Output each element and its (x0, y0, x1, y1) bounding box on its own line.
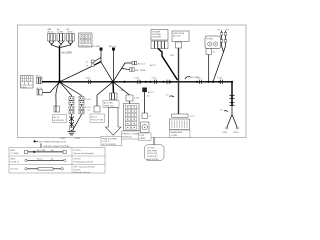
svg-text:FUSE DET: FUSE DET (147, 156, 158, 158)
svg-text:A2 14: A2 14 (148, 91, 154, 94)
svg-text:Z1 14: Z1 14 (85, 99, 91, 101)
svg-text:A0 12RD: A0 12RD (190, 76, 199, 79)
svg-text:Ground: Ground (11, 168, 19, 171)
svg-text:A1 14: A1 14 (54, 116, 60, 119)
svg-text:MR1: MR1 (11, 150, 16, 152)
svg-text:System Headlamp(s): System Headlamp(s) (74, 152, 95, 155)
svg-text:A0 12: A0 12 (48, 31, 54, 34)
svg-text:HORN: HORN (207, 39, 214, 41)
svg-text:Backside Schem: Backside Schem (74, 172, 90, 174)
svg-text:HORN RLY: HORN RLY (54, 120, 66, 122)
svg-text:DIST FOR: DIST FOR (147, 153, 158, 155)
svg-text:97-870: 97-870 (74, 159, 82, 161)
svg-text:A0 12RD: A0 12RD (104, 102, 113, 105)
svg-text:MODULE: MODULE (123, 136, 133, 138)
svg-text:DK BLU: DK BLU (11, 162, 19, 164)
svg-text:A0 12: A0 12 (36, 75, 42, 78)
svg-text:G101: G101 (75, 138, 81, 140)
svg-text:A0 12RD: A0 12RD (62, 51, 73, 55)
svg-text:C117: C117 (190, 116, 196, 118)
svg-text:A31 14: A31 14 (138, 62, 146, 65)
svg-text:FOG LP SW: FOG LP SW (91, 119, 104, 121)
svg-text:PWR OUT: PWR OUT (104, 106, 115, 108)
svg-text:BAT: BAT (48, 28, 53, 31)
svg-text:C111: C111 (152, 78, 158, 80)
svg-text:C110: C110 (134, 78, 140, 80)
svg-text:A2 14: A2 14 (91, 115, 97, 118)
svg-text:PWR DISTRIB: PWR DISTRIB (102, 138, 117, 140)
svg-text:LT GRN: LT GRN (11, 153, 19, 155)
svg-text:97-870: 97-870 (74, 150, 82, 152)
svg-text:G103: G103 (233, 132, 239, 134)
svg-text:A2 12: A2 12 (150, 64, 156, 67)
svg-text:G100: G100 (60, 138, 66, 140)
svg-text:CENTER: CENTER (152, 37, 161, 39)
svg-text:MR2: MR2 (11, 159, 16, 161)
svg-text:2 OF 3: 2 OF 3 (102, 141, 109, 143)
svg-text:C110: C110 (134, 98, 140, 100)
svg-text:97-870: 97-870 (74, 169, 82, 171)
svg-text:GPL Operation/Fixing: GPL Operation/Fixing (74, 166, 96, 169)
svg-text:HEADLAMP: HEADLAMP (171, 131, 184, 134)
svg-text:C100: C100 (85, 78, 91, 80)
svg-text:SEE PWR: SEE PWR (147, 150, 158, 152)
svg-text:PWR DIST: PWR DIST (80, 45, 91, 47)
svg-text:A31 14: A31 14 (109, 45, 117, 48)
svg-text:A1 14: A1 14 (37, 157, 43, 160)
svg-text:98 POWER DISTRIBUTION: 98 POWER DISTRIBUTION (39, 142, 67, 144)
svg-text:(97S-28-SRV): (97S-28-SRV) (102, 144, 116, 146)
svg-text:CONN: CONN (171, 135, 178, 137)
svg-text:G102: G102 (222, 132, 228, 134)
svg-text:NOTE 1: NOTE 1 (148, 148, 157, 150)
svg-text:A31 14BR: A31 14BR (135, 69, 145, 72)
svg-text:LAMP: LAMP (140, 137, 146, 140)
svg-text:C105: C105 (119, 90, 125, 92)
svg-text:A0 12RD: A0 12RD (91, 45, 100, 48)
svg-text:BLOCK: BLOCK (173, 36, 181, 38)
svg-text:A0 12RD: A0 12RD (37, 149, 46, 152)
svg-text:C125: C125 (217, 78, 223, 80)
svg-text:C100: C100 (21, 87, 27, 89)
svg-text:Headlamp(s) Similar: Headlamp(s) Similar (74, 161, 94, 164)
svg-text:AND RTNG: AND RTNG (147, 158, 159, 161)
svg-text:FOG: FOG (140, 135, 145, 137)
